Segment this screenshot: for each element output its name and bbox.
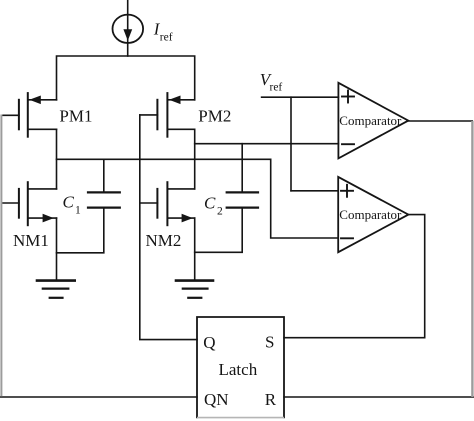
svg-text:S: S	[265, 333, 274, 352]
svg-text:NM1: NM1	[13, 231, 49, 250]
svg-text:C: C	[63, 193, 75, 212]
svg-text:Comparator: Comparator	[339, 207, 402, 222]
svg-text:ref: ref	[160, 32, 173, 44]
svg-text:NM2: NM2	[146, 231, 182, 250]
svg-text:1: 1	[75, 205, 81, 217]
svg-text:R: R	[265, 390, 277, 409]
svg-text:QN: QN	[204, 390, 229, 409]
svg-text:Q: Q	[203, 333, 215, 352]
svg-text:2: 2	[217, 206, 223, 218]
svg-text:C: C	[204, 194, 216, 213]
svg-text:ref: ref	[270, 82, 283, 94]
svg-text:Comparator: Comparator	[339, 113, 402, 128]
svg-text:Latch: Latch	[219, 360, 258, 379]
svg-text:PM1: PM1	[59, 107, 92, 126]
svg-text:PM2: PM2	[198, 107, 231, 126]
